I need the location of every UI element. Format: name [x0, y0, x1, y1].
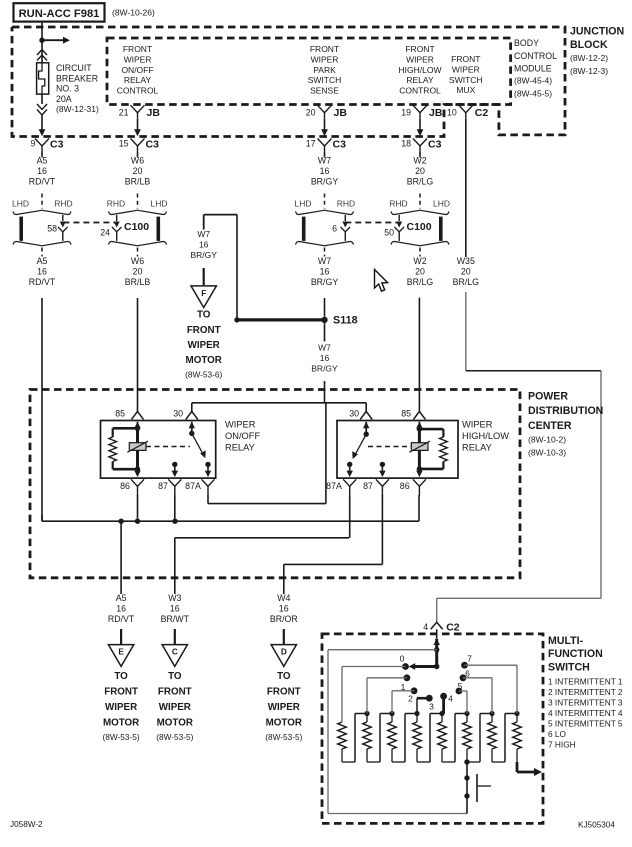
svg-text:(8W-12-31): (8W-12-31) [56, 104, 99, 114]
svg-text:4: 4 [423, 622, 428, 632]
svg-text:FRONT: FRONT [267, 687, 301, 698]
svg-text:CONTROL: CONTROL [117, 86, 159, 96]
svg-text:2: 2 [408, 694, 413, 704]
svg-text:POWER: POWER [528, 391, 568, 403]
svg-text:16: 16 [37, 166, 47, 176]
svg-text:C2: C2 [446, 622, 460, 634]
svg-text:D: D [281, 648, 287, 657]
svg-text:5: 5 [458, 681, 463, 691]
svg-text:2 INTERMITTENT 2: 2 INTERMITTENT 2 [548, 687, 623, 697]
svg-text:16: 16 [320, 353, 330, 363]
svg-text:7: 7 [467, 654, 472, 664]
svg-text:RUN-ACC F981: RUN-ACC F981 [19, 8, 100, 20]
svg-text:WIPER: WIPER [105, 702, 137, 713]
svg-text:5 INTERMITTENT 5: 5 INTERMITTENT 5 [548, 718, 623, 728]
svg-text:85: 85 [115, 408, 125, 418]
svg-text:WIPER: WIPER [311, 54, 339, 64]
svg-text:SWITCH: SWITCH [548, 661, 590, 673]
svg-text:ON/OFF: ON/OFF [121, 65, 153, 75]
svg-text:FRONT: FRONT [104, 687, 138, 698]
svg-text:RD/VT: RD/VT [29, 277, 56, 287]
svg-text:LHD: LHD [294, 198, 311, 208]
svg-text:0: 0 [400, 654, 405, 664]
svg-text:W7: W7 [197, 229, 210, 239]
svg-text:HIGH/LOW: HIGH/LOW [462, 431, 509, 441]
svg-text:JB: JB [334, 107, 348, 119]
svg-text:(8W-10-26): (8W-10-26) [112, 8, 155, 18]
svg-text:WIPER: WIPER [406, 54, 434, 64]
svg-text:WIPER: WIPER [159, 702, 191, 713]
svg-text:4 INTERMITTENT 4: 4 INTERMITTENT 4 [548, 708, 623, 718]
svg-text:HIGH/LOW: HIGH/LOW [399, 65, 442, 75]
svg-text:87A: 87A [326, 481, 342, 491]
svg-text:RD/VT: RD/VT [29, 177, 56, 187]
svg-text:16: 16 [279, 604, 289, 614]
svg-text:LHD: LHD [150, 198, 167, 208]
svg-text:16: 16 [320, 166, 330, 176]
svg-text:FRONT: FRONT [451, 54, 480, 64]
svg-text:BR/WT: BR/WT [161, 614, 190, 624]
svg-text:TO: TO [114, 671, 128, 682]
svg-text:(8W-53-5): (8W-53-5) [265, 732, 302, 742]
svg-text:BR/LB: BR/LB [125, 277, 151, 287]
svg-text:3: 3 [429, 702, 434, 712]
svg-text:(8W-53-5): (8W-53-5) [156, 732, 193, 742]
svg-text:C: C [172, 648, 178, 657]
svg-text:16: 16 [37, 267, 47, 277]
svg-text:RELAY: RELAY [225, 443, 255, 453]
svg-text:85: 85 [401, 408, 411, 418]
svg-text:F: F [201, 289, 206, 298]
svg-text:C100: C100 [124, 221, 149, 233]
svg-text:(8W-53-6): (8W-53-6) [185, 369, 222, 379]
svg-text:RHD: RHD [337, 198, 355, 208]
svg-text:W6: W6 [131, 156, 144, 166]
svg-text:BR/LG: BR/LG [407, 177, 434, 187]
svg-text:FRONT: FRONT [187, 325, 221, 336]
svg-text:16: 16 [320, 267, 330, 277]
svg-text:W6: W6 [131, 256, 144, 266]
svg-text:6: 6 [332, 224, 337, 234]
svg-text:1 INTERMITTENT 1: 1 INTERMITTENT 1 [548, 676, 623, 686]
svg-text:MODULE: MODULE [514, 64, 552, 74]
svg-text:(8W-12-3): (8W-12-3) [570, 66, 608, 76]
svg-text:BR/LB: BR/LB [125, 177, 151, 187]
svg-text:W2: W2 [413, 256, 426, 266]
svg-text:MUX: MUX [456, 85, 475, 95]
svg-text:20: 20 [415, 267, 425, 277]
svg-text:BR/GY: BR/GY [311, 364, 338, 374]
svg-text:86: 86 [400, 481, 410, 491]
svg-text:9: 9 [31, 139, 36, 149]
svg-text:MULTI-: MULTI- [548, 635, 584, 647]
svg-text:20: 20 [461, 267, 471, 277]
svg-text:J058W-2: J058W-2 [10, 820, 43, 829]
svg-text:W4: W4 [277, 593, 290, 603]
svg-text:RELAY: RELAY [462, 443, 492, 453]
svg-text:TO: TO [168, 671, 182, 682]
svg-text:BR/GY: BR/GY [190, 250, 217, 260]
svg-text:6 LO: 6 LO [548, 729, 567, 739]
svg-text:BR/GY: BR/GY [311, 277, 339, 287]
svg-text:RHD: RHD [107, 198, 125, 208]
svg-text:CONTROL: CONTROL [514, 51, 557, 61]
svg-text:PARK: PARK [313, 65, 336, 75]
svg-text:BR/LG: BR/LG [407, 277, 434, 287]
svg-text:TO: TO [277, 671, 291, 682]
svg-text:TO: TO [197, 309, 211, 320]
svg-text:WIPER: WIPER [452, 64, 480, 74]
svg-text:WIPER: WIPER [462, 420, 493, 430]
svg-text:W2: W2 [413, 156, 426, 166]
svg-text:FRONT: FRONT [310, 44, 339, 54]
svg-text:4: 4 [448, 694, 453, 704]
svg-text:FUNCTION: FUNCTION [548, 648, 603, 660]
svg-text:A5: A5 [37, 156, 48, 166]
svg-text:(8W-10-3): (8W-10-3) [528, 448, 566, 458]
svg-text:WIPER: WIPER [124, 54, 152, 64]
svg-text:86: 86 [120, 481, 130, 491]
svg-text:20: 20 [133, 166, 143, 176]
svg-text:21: 21 [119, 107, 129, 117]
svg-text:W35: W35 [457, 256, 475, 266]
svg-text:FRONT: FRONT [405, 44, 434, 54]
svg-text:KJ505304: KJ505304 [578, 821, 615, 830]
svg-text:MOTOR: MOTOR [186, 355, 222, 366]
svg-text:20: 20 [306, 107, 316, 117]
svg-text:JB: JB [429, 107, 443, 119]
svg-text:RHD: RHD [389, 198, 407, 208]
svg-text:CENTER: CENTER [528, 420, 572, 432]
svg-text:WIPER: WIPER [225, 420, 256, 430]
svg-text:RELAY: RELAY [124, 75, 152, 85]
svg-text:MOTOR: MOTOR [266, 718, 302, 729]
svg-text:20A: 20A [56, 94, 72, 104]
svg-text:30: 30 [349, 408, 359, 418]
svg-text:87A: 87A [185, 481, 201, 491]
svg-text:CIRCUIT: CIRCUIT [56, 63, 92, 73]
svg-text:(8W-10-2): (8W-10-2) [528, 435, 566, 445]
svg-text:C3: C3 [428, 139, 442, 151]
svg-text:C3: C3 [50, 139, 64, 151]
svg-text:BLOCK: BLOCK [570, 39, 608, 51]
svg-text:WIPER: WIPER [268, 702, 300, 713]
svg-text:6: 6 [465, 669, 470, 679]
svg-text:BR/OR: BR/OR [270, 614, 298, 624]
svg-text:87: 87 [363, 481, 373, 491]
svg-text:C2: C2 [475, 107, 489, 119]
svg-text:NO. 3: NO. 3 [56, 84, 79, 94]
svg-text:16: 16 [170, 604, 180, 614]
svg-text:BR/LG: BR/LG [453, 277, 480, 287]
svg-text:RD/VT: RD/VT [108, 614, 135, 624]
svg-text:(8W-45-5): (8W-45-5) [514, 89, 552, 99]
svg-text:SWITCH: SWITCH [308, 75, 342, 85]
svg-text:19: 19 [401, 107, 411, 117]
svg-text:(8W-53-5): (8W-53-5) [102, 732, 139, 742]
svg-text:JB: JB [147, 107, 161, 119]
svg-text:(8W-45-4): (8W-45-4) [514, 76, 552, 86]
svg-text:C100: C100 [407, 221, 432, 233]
svg-text:18: 18 [401, 139, 411, 149]
svg-text:SWITCH: SWITCH [449, 75, 483, 85]
svg-text:16: 16 [116, 604, 126, 614]
svg-text:SENSE: SENSE [310, 86, 339, 96]
svg-text:W7: W7 [318, 256, 331, 266]
svg-text:BREAKER: BREAKER [56, 73, 98, 83]
svg-text:S118: S118 [333, 315, 358, 327]
svg-text:15: 15 [119, 139, 129, 149]
svg-text:24: 24 [100, 228, 110, 238]
svg-text:MOTOR: MOTOR [157, 718, 193, 729]
svg-text:MOTOR: MOTOR [103, 718, 139, 729]
svg-text:50: 50 [384, 228, 394, 238]
svg-text:W7: W7 [318, 156, 331, 166]
svg-text:7 HIGH: 7 HIGH [548, 739, 576, 749]
svg-text:3 INTERMITTENT 3: 3 INTERMITTENT 3 [548, 697, 623, 707]
svg-text:10: 10 [447, 107, 457, 117]
svg-text:RELAY: RELAY [406, 75, 434, 85]
svg-text:JUNCTION: JUNCTION [570, 26, 624, 38]
svg-text:16: 16 [199, 240, 209, 250]
svg-text:W3: W3 [168, 593, 181, 603]
svg-text:17: 17 [306, 139, 316, 149]
svg-text:CONTROL: CONTROL [399, 86, 441, 96]
svg-text:LHD: LHD [433, 198, 450, 208]
svg-text:1: 1 [401, 682, 406, 692]
svg-text:20: 20 [133, 267, 143, 277]
svg-text:30: 30 [173, 408, 183, 418]
svg-text:C3: C3 [333, 139, 347, 151]
svg-text:FRONT: FRONT [158, 687, 192, 698]
svg-text:BODY: BODY [514, 38, 539, 48]
svg-text:E: E [118, 648, 124, 657]
svg-text:A5: A5 [116, 593, 127, 603]
svg-text:DISTRIBUTION: DISTRIBUTION [528, 405, 603, 417]
svg-text:20: 20 [415, 166, 425, 176]
svg-text:RHD: RHD [54, 198, 72, 208]
svg-text:(8W-12-2): (8W-12-2) [570, 53, 608, 63]
svg-text:W7: W7 [318, 343, 331, 353]
svg-text:87: 87 [158, 481, 168, 491]
svg-text:58: 58 [47, 224, 57, 234]
svg-text:C3: C3 [146, 139, 160, 151]
svg-text:FRONT: FRONT [123, 44, 152, 54]
svg-text:A5: A5 [37, 256, 48, 266]
svg-text:ON/OFF: ON/OFF [225, 431, 260, 441]
svg-text:WIPER: WIPER [188, 340, 220, 351]
svg-text:LHD: LHD [12, 198, 29, 208]
svg-text:BR/GY: BR/GY [311, 177, 339, 187]
